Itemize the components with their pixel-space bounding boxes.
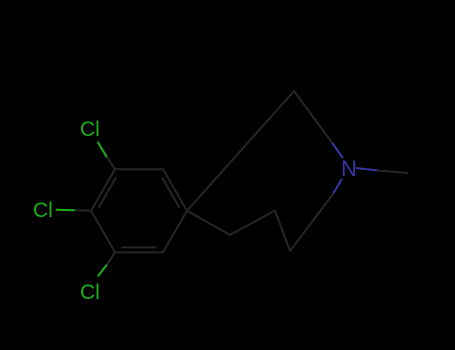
svg-text:Cl: Cl (33, 199, 53, 222)
svg-text:Cl: Cl (80, 118, 100, 141)
svg-text:Cl: Cl (80, 281, 100, 304)
svg-text:N: N (341, 156, 357, 181)
